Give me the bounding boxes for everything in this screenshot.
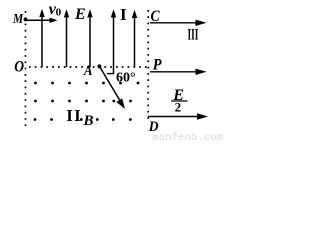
- dotted boundary line C-D (right vertical): [147, 10, 149, 121]
- velocity arrow at A (60 degrees below OP line): [100, 67, 125, 109]
- svg-text:III: III: [188, 26, 199, 43]
- E-field arrow 1: [39, 9, 44, 67]
- svg-text:O: O: [14, 59, 24, 76]
- point M: [24, 18, 28, 22]
- svg-text:60°: 60°: [116, 70, 136, 85]
- svg-text:2: 2: [175, 99, 182, 114]
- svg-text:M: M: [12, 11, 24, 26]
- field arrow from P (region III, middle): [150, 69, 207, 75]
- field arrow at D (region III, bottom): [148, 113, 208, 119]
- svg-text:II: II: [66, 106, 82, 125]
- B-field dots (region II, field out of page): [34, 82, 140, 121]
- E-field arrow 2: [64, 9, 69, 67]
- E-field arrow 4 (extends below line, forms 60-degree angle bracket): [107, 9, 116, 73]
- field arrow from C (region III, top): [150, 20, 207, 26]
- svg-text:B: B: [83, 113, 94, 129]
- svg-text:manfen5.com: manfen5.com: [153, 132, 223, 142]
- label v0: [49, 1, 62, 19]
- E-field arrow 5: [132, 10, 137, 67]
- point A: [97, 64, 101, 68]
- svg-text:P: P: [153, 56, 162, 74]
- velocity arrow v0: [27, 18, 58, 23]
- label E/2 (field in region III): [171, 87, 188, 115]
- svg-text:0: 0: [56, 7, 62, 19]
- E-field arrow 3: [87, 9, 92, 67]
- dotted boundary line M-O (left vertical): [25, 11, 27, 129]
- svg-text:E: E: [74, 6, 86, 23]
- svg-text:A: A: [83, 63, 92, 79]
- dotted boundary line O-P (horizontal): [29, 66, 147, 68]
- svg-text:I: I: [120, 5, 127, 24]
